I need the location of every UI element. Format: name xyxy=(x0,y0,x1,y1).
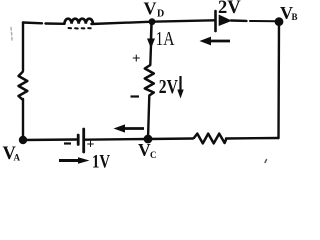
polarity - (bottom of center resistor) xyxy=(131,95,140,97)
wire left vertical lower segment xyxy=(22,99,24,140)
wire top right segment (battery to node V_B) xyxy=(231,19,276,22)
svg-text:V: V xyxy=(144,0,157,18)
battery 1V (bottom, short plate left + long plate right) xyxy=(78,129,84,152)
current arrow (above bottom wire left of V_C, pointing left) xyxy=(114,124,145,132)
wire bottom middle segment (battery to node V_C) xyxy=(85,138,148,141)
label V_C xyxy=(138,140,157,160)
svg-text:A: A xyxy=(14,152,21,162)
wire right vertical segment xyxy=(277,22,280,138)
svg-text:D: D xyxy=(157,9,164,20)
svg-text:1V: 1V xyxy=(92,151,111,169)
resistor left (vertical zigzag) xyxy=(19,72,28,101)
resistor top (coil between top-left corner and node V_D) xyxy=(65,19,93,29)
wire center segment (arrow to resistor) xyxy=(149,45,152,65)
polarity - (left of 1V battery) xyxy=(64,142,71,144)
label 2V (top battery) xyxy=(218,0,241,18)
scan smudge (left edge) xyxy=(11,28,12,41)
wire left vertical upper segment xyxy=(22,23,24,72)
node V_C (junction dot) xyxy=(144,135,153,144)
current arrow (below 2V battery, pointing left) xyxy=(200,37,231,46)
svg-text:C: C xyxy=(150,150,157,160)
svg-text:2V: 2V xyxy=(218,0,241,18)
node V_A (junction dot) xyxy=(19,136,27,144)
svg-text:1A: 1A xyxy=(156,27,175,49)
wire bottom segment (V_C to resistor) xyxy=(148,137,193,140)
node V_D (junction dot) xyxy=(149,18,156,25)
polarity + (right of 1V battery) xyxy=(87,138,95,153)
label V_B xyxy=(280,3,298,23)
wire bottom left segment (V_A to 1V battery) xyxy=(23,138,77,141)
wire bottom right segment (resistor to corner) xyxy=(226,137,279,140)
polarity + (top of center resistor) xyxy=(132,51,141,67)
scan speck (bottom right) xyxy=(265,160,267,163)
wire top-left horizontal segment xyxy=(23,23,65,24)
svg-text:+: + xyxy=(132,51,141,67)
wire center lower segment (resistor to node V_C) xyxy=(148,96,149,140)
current arrow 1A (down from node V_D) xyxy=(147,23,155,49)
label V_D xyxy=(144,0,165,20)
wire top middle segment (resistor to node V_D) xyxy=(91,22,152,24)
label 1A xyxy=(156,27,175,49)
resistor center (vertical zigzag, 2V across it) xyxy=(145,65,154,96)
label V_A xyxy=(3,144,21,164)
svg-text:2V: 2V xyxy=(159,75,178,97)
battery 2V (top right, long plate left + short thick plate right) xyxy=(216,11,233,31)
label 2V (center resistor) xyxy=(159,75,178,97)
svg-text:B: B xyxy=(292,12,298,22)
node V_B (junction dot) xyxy=(275,17,284,26)
resistor bottom right (horizontal zigzag) xyxy=(194,134,227,144)
current arrow 1V (below battery, pointing right) xyxy=(59,157,90,163)
voltage arrow (small, pointing down, right of 2V label) xyxy=(177,76,183,99)
wire top segment (node V_D to 2V battery) xyxy=(152,20,214,21)
label 1V xyxy=(92,151,111,172)
